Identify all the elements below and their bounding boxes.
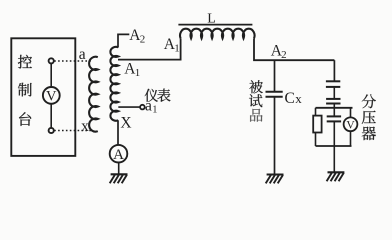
transformer secondary winding <box>110 47 118 121</box>
svg-text:1: 1 <box>135 67 141 79</box>
label 品 <box>250 109 262 122</box>
svg-text:V: V <box>46 88 57 104</box>
wire A1 to inductor <box>118 38 181 59</box>
wire ammeter to ground <box>118 163 120 175</box>
wire C2 to parallel section <box>333 104 335 108</box>
svg-text:a: a <box>79 46 86 63</box>
label 台 <box>19 112 31 126</box>
svg-text:2: 2 <box>140 33 146 45</box>
ammeter A1 <box>110 145 128 163</box>
wire C1 to C2 <box>333 87 335 99</box>
terminal node bottom (to x) <box>49 128 54 133</box>
ground under Cx <box>266 175 284 184</box>
voltmeter V1 <box>43 87 60 104</box>
wire to voltmeter V2 <box>350 108 352 118</box>
label 器 <box>362 127 376 141</box>
svg-text:C: C <box>285 90 295 107</box>
svg-text:X: X <box>120 115 131 132</box>
label 制 <box>18 83 32 97</box>
wire down to divider <box>333 60 335 81</box>
wire C3 through bottom bar to ground <box>333 121 335 172</box>
label 试 <box>249 94 262 107</box>
label 被 <box>249 80 263 93</box>
inductor L winding <box>180 29 255 39</box>
capacitor C2 <box>326 99 340 104</box>
label 表 <box>157 89 170 102</box>
dotted wire a <box>54 60 91 62</box>
wire voltmeter to bottom bar <box>350 131 352 146</box>
wire A2 stub at secondary top <box>118 34 129 47</box>
label 压 <box>362 111 376 124</box>
resistor R1 <box>313 116 321 133</box>
wire secondary bottom to ammeter <box>117 120 119 145</box>
svg-text:1: 1 <box>152 105 157 116</box>
wire tap a1 <box>118 106 140 108</box>
terminal node a1 <box>140 105 145 110</box>
wire resistor to bottom bar <box>315 133 317 147</box>
svg-text:x: x <box>81 118 89 135</box>
dotted wire x <box>54 130 91 132</box>
wire Cx to ground <box>274 97 276 175</box>
svg-text:A: A <box>113 147 124 163</box>
capacitor C1 (divider top) <box>326 81 340 87</box>
wire A2 node down to Cx <box>274 60 276 91</box>
inductor L core bar <box>178 24 252 26</box>
wire inductor to A2 node <box>254 38 334 60</box>
top bar of parallel section <box>316 107 353 109</box>
transformer primary winding <box>89 57 98 132</box>
svg-text:1: 1 <box>174 43 180 55</box>
voltmeter V2 (divider meter) <box>344 117 358 131</box>
svg-text:L: L <box>207 11 216 26</box>
wire to C3 <box>333 108 335 116</box>
svg-text:x: x <box>295 91 302 106</box>
capacitor Cx <box>266 92 283 97</box>
wire top terminal to voltmeter <box>50 64 52 88</box>
wire to resistor <box>315 108 317 116</box>
ground under divider <box>327 172 345 181</box>
terminal node top (to a) <box>49 58 54 63</box>
svg-text:2: 2 <box>281 49 287 61</box>
ground under ammeter <box>110 174 128 183</box>
control console box 控制台 <box>11 38 75 156</box>
wire voltmeter to bottom terminal <box>50 104 52 128</box>
bottom bar of parallel section <box>316 145 352 147</box>
label 分 <box>362 94 376 108</box>
label 仪 <box>145 89 158 102</box>
capacitor C3 <box>327 116 341 121</box>
label 控 <box>18 55 32 69</box>
svg-text:V: V <box>346 119 355 131</box>
